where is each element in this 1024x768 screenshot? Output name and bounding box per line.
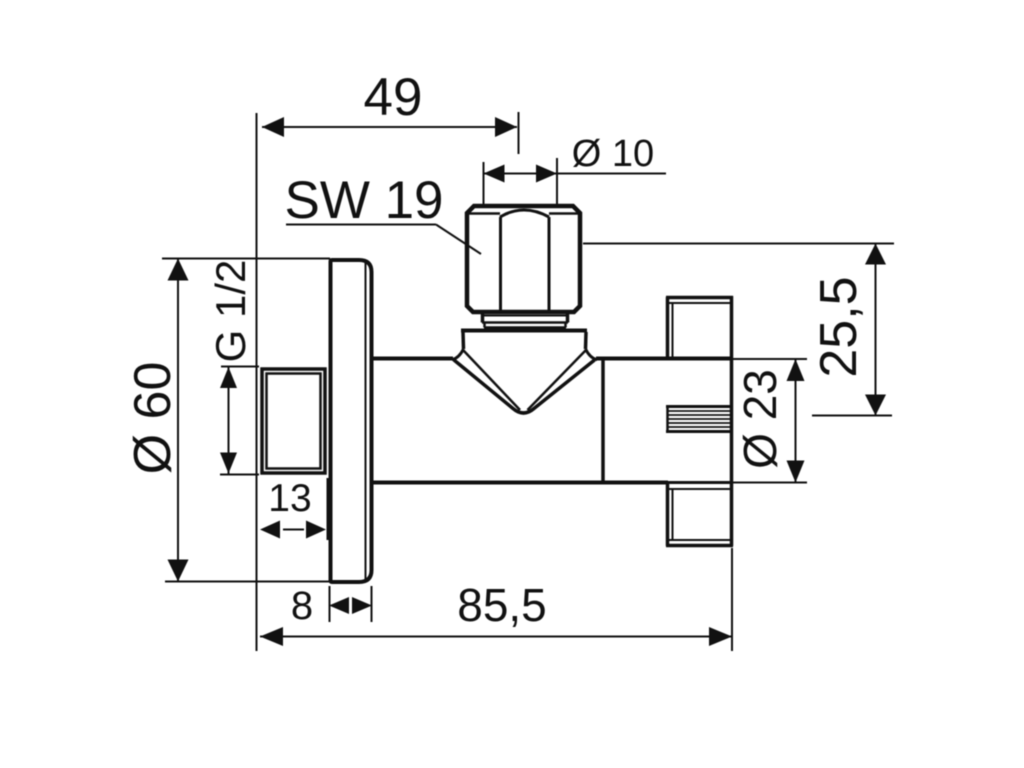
- body top line right of cone: [596, 357, 733, 361]
- label SW 19: [284, 171, 481, 254]
- d23 dimension line: [795, 359, 797, 483]
- washer band 2 left edge: [483, 323, 486, 328]
- bonnet right flare: [586, 349, 598, 360]
- d10 left extension line: [483, 162, 485, 204]
- d23 bottom arrowhead: [787, 461, 805, 483]
- body bottom line: [372, 481, 668, 485]
- svg-text:13: 13: [268, 477, 311, 520]
- 25,5 bottom arrowhead: [865, 395, 886, 416]
- washer band 1 bottom line: [482, 321, 568, 324]
- 49 left extension line: [256, 113, 258, 651]
- outlet bottom fitting left edge: [666, 483, 670, 546]
- d10 right extension line: [556, 158, 558, 204]
- G1/2 top arrowhead: [220, 367, 237, 388]
- d10 left arrowhead: [484, 165, 505, 183]
- G1/2 bottom arrowhead: [220, 453, 237, 474]
- 8 left extension line: [329, 586, 331, 622]
- washer band 1 right edge: [566, 313, 570, 323]
- 13 right arrowhead: [306, 521, 326, 539]
- svg-text:Ø 23: Ø 23: [734, 369, 786, 469]
- d60 dimension line: [177, 259, 179, 582]
- washer band 2 right edge: [564, 323, 567, 328]
- SW19 leader line: [436, 225, 481, 255]
- washer band 2 bottom line: [484, 326, 566, 329]
- dimension 25,5: [583, 244, 894, 416]
- outlet bottom fitting bottom edge: [666, 544, 733, 548]
- G1/2 top extension line: [221, 366, 259, 368]
- cone inner V right: [528, 351, 586, 411]
- dimension 85,5: [260, 548, 732, 651]
- outlet top fitting left edge: [666, 297, 670, 357]
- 49 right arrowhead: [495, 117, 517, 137]
- body internal right edge: [601, 358, 605, 482]
- hex nut left facet line: [499, 217, 502, 310]
- svg-text:Ø 10: Ø 10: [572, 133, 654, 175]
- knurled ring left edge: [666, 406, 669, 432]
- dimension 8: [291, 584, 372, 628]
- body top line left of cone: [372, 357, 453, 361]
- G1/2 bottom extension line: [220, 474, 259, 476]
- dimension diameter 10: [484, 133, 667, 204]
- knurled ring top edge: [666, 405, 732, 408]
- bonnet top edge: [461, 329, 587, 333]
- d10 right arrowhead: [536, 165, 557, 183]
- G1/2 threaded inlet fitting outer: [262, 369, 325, 473]
- 8 left arrowhead: [329, 597, 349, 614]
- d23 bottom extension line: [700, 482, 807, 484]
- hex nut left chamfer line: [468, 212, 500, 215]
- outlet bottom fitting inner top edge: [668, 488, 731, 490]
- svg-text:SW 19: SW 19: [284, 171, 443, 230]
- svg-text:49: 49: [364, 68, 423, 127]
- knurled ring lines: [667, 410, 731, 412]
- 13 dimension line: [283, 529, 304, 531]
- d60 bottom arrowhead: [168, 560, 189, 582]
- cone outer V: [454, 360, 595, 413]
- wall flange inner face line: [365, 263, 367, 579]
- 25,5 dimension line: [875, 244, 877, 416]
- dimension 13: [260, 477, 328, 540]
- 85,5 right arrowhead: [709, 627, 732, 646]
- outlet top fitting top edge: [666, 296, 733, 300]
- cone inner V left: [464, 351, 521, 411]
- outlet bottom fitting inner left edge: [672, 489, 674, 540]
- bonnet right side: [584, 332, 588, 349]
- washer band 1 top line: [482, 315, 568, 317]
- hex nut right chamfer line: [549, 212, 579, 215]
- 85,5 dimension line: [260, 636, 732, 638]
- G1/2 threaded inlet fitting inner: [267, 374, 321, 469]
- wall flange (rosette): [331, 260, 372, 582]
- svg-text:G 1/2: G 1/2: [207, 260, 254, 363]
- G1/2 dimension line: [228, 367, 230, 474]
- d10 dimension and leader line: [484, 173, 667, 175]
- SW19 underline: [286, 224, 436, 226]
- outlet top fitting inner left edge: [672, 303, 674, 357]
- hex nut center facet arc: [500, 210, 549, 217]
- 49 left arrowhead: [262, 117, 284, 137]
- outlet top fitting inner top edge: [668, 302, 731, 304]
- 25,5 top extension line: [583, 243, 894, 245]
- d60 top arrowhead: [168, 259, 189, 281]
- outlet bottom fitting top edge: [666, 481, 733, 484]
- 85,5 right extension line: [731, 548, 733, 651]
- 13 left arrowhead: [260, 521, 280, 539]
- bonnet left side: [461, 332, 465, 349]
- dimension diameter 60: [124, 259, 330, 582]
- 8 right arrowhead: [352, 597, 372, 614]
- svg-text:85,5: 85,5: [457, 579, 547, 631]
- dimension diameter 23: [700, 359, 807, 483]
- svg-text:8: 8: [291, 584, 313, 628]
- 13 right extension line: [327, 478, 329, 540]
- 49 dimension line: [262, 126, 517, 128]
- 49 right extension line: [518, 112, 520, 154]
- dimension 49: [257, 68, 519, 651]
- dimension G 1/2: [207, 260, 259, 475]
- knurled ring bottom edge: [666, 430, 732, 433]
- d23 top arrowhead: [787, 359, 805, 381]
- 25,5 top arrowhead: [865, 244, 886, 265]
- hex nut right facet line: [548, 217, 551, 310]
- 8 right extension line: [371, 586, 373, 622]
- outlet right edge: [730, 296, 734, 546]
- 85,5 left arrowhead: [260, 627, 283, 646]
- bonnet left flare: [452, 349, 464, 360]
- d23 top extension line: [733, 358, 807, 360]
- d60 top extension line: [162, 258, 330, 260]
- washer band 1 left edge: [481, 313, 485, 323]
- 25,5 bottom tick line: [812, 415, 892, 417]
- svg-text:Ø 60: Ø 60: [124, 362, 182, 475]
- svg-text:25,5: 25,5: [810, 276, 868, 377]
- d60 bottom extension line: [165, 581, 330, 583]
- hex nut outline: [467, 206, 580, 312]
- outlet bottom fitting inner bottom edge: [668, 539, 731, 541]
